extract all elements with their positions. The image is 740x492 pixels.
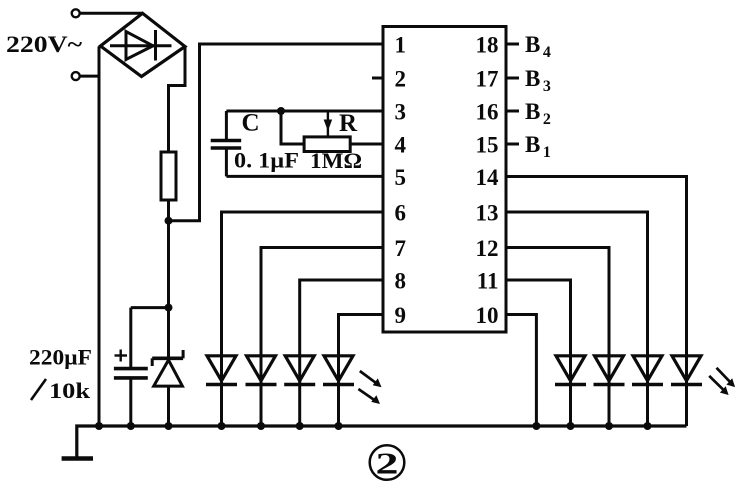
wire: pin 17 stub (506, 77, 519, 80)
svg-text:13: 13 (476, 200, 499, 225)
wire: pin 10 to ground rail (506, 315, 536, 427)
resistor R 1M (304, 137, 350, 152)
IC U1 (383, 27, 506, 333)
node: rail zener (165, 422, 173, 430)
svg-text:220V~: 220V~ (6, 32, 82, 57)
node: R branch on pin 3 wire (277, 107, 285, 115)
LED emission arrows left group (358, 371, 381, 404)
svg-text:7: 7 (395, 236, 407, 261)
wire: pin 11 to LED5 (506, 280, 571, 356)
svg-text:6: 6 (395, 200, 407, 225)
svg-text:2: 2 (395, 66, 407, 91)
wire: resistor R1 bottom to junction (167, 200, 170, 221)
svg-text:C: C (242, 110, 260, 137)
svg-text:12: 12 (476, 236, 499, 261)
LED VD6 (594, 356, 625, 426)
wire: pin 18 stub (506, 43, 519, 46)
svg-text:18: 18 (476, 32, 499, 57)
LED VD4 (323, 356, 354, 426)
wire: pin 5 to C bottom (226, 175, 383, 178)
svg-text:2: 2 (376, 446, 399, 481)
node: rail LED7 (644, 422, 652, 430)
svg-text:10k: 10k (49, 378, 91, 403)
svg-text:10: 10 (476, 303, 499, 328)
node: rail LED3 (296, 422, 304, 430)
wire: branch down to resistor R left (281, 111, 304, 144)
svg-text:8: 8 (395, 268, 407, 293)
wire: pin 16 stub (506, 110, 519, 113)
svg-text:3: 3 (395, 99, 407, 124)
svg-text:0. 1µF: 0. 1µF (234, 148, 299, 173)
wire: junction to pin 1 riser (169, 44, 384, 221)
wire: pin 15 stub (506, 143, 519, 146)
wire: pin 14 to LED8 (506, 177, 687, 356)
svg-text:16: 16 (476, 99, 499, 124)
ground rail (77, 426, 687, 458)
svg-text:R: R (339, 110, 358, 137)
wire: pin 13 to LED7 (506, 212, 648, 356)
LED VD2 (246, 356, 277, 426)
LED VD1 (206, 356, 237, 426)
wire: top AC terminal to bridge top corner (80, 12, 143, 15)
node: rail LED5 (567, 422, 575, 430)
LED VD8 (671, 356, 702, 426)
wire: bottom AC terminal to left rail (80, 75, 99, 78)
node: rail LED4 (335, 422, 343, 430)
svg-text:15: 15 (476, 132, 499, 157)
node: junction below R1 (165, 217, 173, 225)
LED VD7 (632, 356, 663, 426)
svg-text:17: 17 (476, 66, 499, 91)
wire: junction to electrolytic capacitor (131, 306, 169, 309)
label /10k (31, 379, 46, 400)
svg-text:4: 4 (395, 132, 407, 157)
node: rail pin10 (532, 422, 540, 430)
zener diode VD (152, 308, 183, 426)
wire: resistor R right to pin 4 (350, 143, 383, 146)
capacitor C 0.1uF (211, 111, 242, 176)
ground symbol (62, 456, 93, 461)
wire: bridge right corner step down to resistor R1 (169, 47, 186, 153)
wire: junction down to zener node (167, 221, 170, 308)
svg-text:9: 9 (395, 303, 407, 328)
svg-text:1: 1 (395, 32, 407, 57)
wire: pin 3 to RC network (226, 110, 383, 113)
AC terminal bottom (72, 72, 80, 80)
capacitor C1 220uF electrolytic (114, 308, 148, 426)
LED VD3 (284, 356, 315, 426)
wire: pin 7 to LED2 (261, 248, 383, 356)
node: rail LED1 (218, 422, 226, 430)
wire: pin 6 to LED1 (222, 212, 384, 356)
node: zener / filter cap junction (165, 304, 173, 312)
node: rail LED2 (257, 422, 265, 430)
node: rail LED6 (605, 422, 613, 430)
figure number 2 (370, 445, 405, 480)
bridge rectifier D1 (101, 13, 186, 76)
svg-text:220µF: 220µF (29, 345, 92, 370)
svg-text:1MΩ: 1MΩ (310, 148, 362, 173)
arrow: R adjustment arrow (324, 111, 333, 137)
svg-text:5: 5 (395, 165, 407, 190)
svg-text:11: 11 (477, 268, 499, 293)
wire: pin 8 to LED3 (300, 280, 383, 356)
AC terminal top (72, 9, 80, 17)
wire: pin 9 to LED4 (339, 315, 384, 356)
node: rail cap C1 (127, 422, 135, 430)
wire: pin 2 stub (372, 77, 383, 80)
svg-text:14: 14 (476, 165, 500, 190)
LED VD5 (555, 356, 586, 426)
resistor R1 series dropper (161, 152, 176, 200)
wire: pin 12 to LED6 (506, 248, 609, 356)
node: rail left vertical (95, 422, 103, 430)
wire: bridge left corner down left side to ground rail (98, 47, 101, 427)
LED emission arrows right group (709, 368, 735, 395)
